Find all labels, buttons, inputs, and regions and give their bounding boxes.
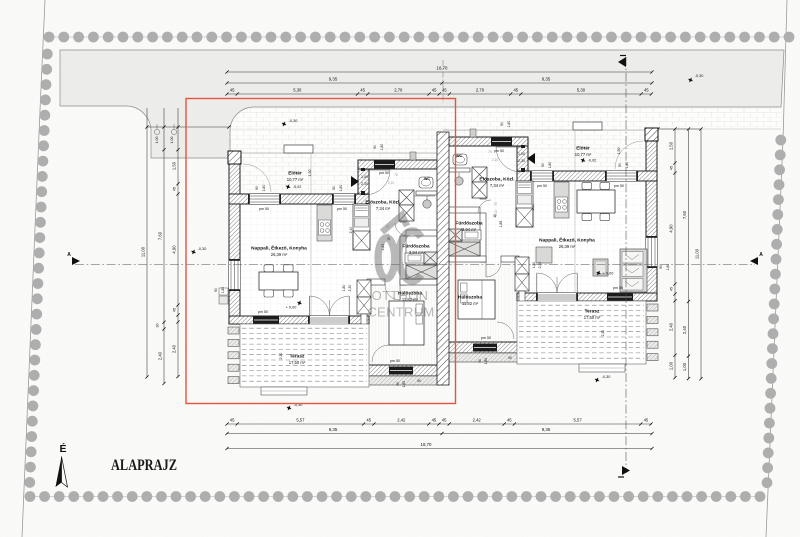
svg-text:90: 90 [396,382,400,386]
svg-text:1,50: 1,50 [617,148,621,155]
svg-text:10: 10 [493,214,497,218]
svg-text:45: 45 [230,88,235,93]
entry step right unit [573,122,602,130]
svg-text:pm 50: pm 50 [390,359,400,363]
svg-text:1,00: 1,00 [361,175,368,179]
bottom wall bedroom right unit [437,342,519,353]
right chains top connector [658,128,701,130]
svg-text:45: 45 [670,166,674,170]
svg-text:pm 50: pm 50 [494,149,504,153]
plot boundary line right [766,0,787,537]
svg-text:Előszoba, Közl.: Előszoba, Közl. [479,177,514,183]
svg-text:1,80: 1,80 [532,262,536,269]
svg-text:2,70: 2,70 [394,88,403,93]
svg-text:7,60: 7,60 [158,231,163,240]
bottom wall bedroom left unit [367,365,449,376]
washbasin right unit [455,177,463,185]
porch edge line left [310,153,312,316]
svg-text:18,70: 18,70 [421,442,433,447]
svg-text:4,90: 4,90 [669,224,674,233]
right dimension chain 1,50 45 4,90 45 30 2,40 1,00 [674,129,676,378]
bedroom terrace-side door left unit [372,345,389,362]
svg-text:9,35: 9,35 [329,427,338,432]
svg-text:1,00: 1,00 [155,137,159,144]
wc bowl left unit [419,177,433,188]
porch roof line left unit [229,152,443,154]
svg-text:90: 90 [255,186,259,190]
svg-text:2,42: 2,42 [473,418,482,423]
svg-text:WC: WC [456,154,462,158]
sofa right unit [620,249,647,292]
planter edge left unit [367,376,440,385]
washbasin left unit [423,200,431,208]
svg-text:-0,30: -0,30 [695,74,704,78]
porch door swing left unit [243,164,271,192]
porch edge line right [574,130,576,293]
svg-text:Előtér: Előtér [288,171,302,177]
svg-text:2,10: 2,10 [531,204,535,211]
svg-text:50: 50 [417,379,421,383]
front wall living left unit with windows [229,194,369,204]
outer wall left (west) with window [229,152,240,324]
entry arrow right unit [527,153,535,164]
driveway tree symbols [154,129,159,134]
porch door swing right unit [615,141,643,169]
svg-text:Előszoba, Közl.: Előszoba, Közl. [365,200,400,206]
svg-text:75: 75 [488,150,492,154]
svg-text:Fürdőszoba: Fürdőszoba [455,221,483,227]
entry door left unit [361,168,365,171]
svg-text:1,80: 1,80 [625,162,629,169]
terrace edge marks right [647,304,658,311]
svg-text:7,34 m²: 7,34 m² [376,206,391,211]
left dimension chain 11,00 [146,108,148,377]
svg-text:10,77 m²: 10,77 m² [575,152,592,157]
planter edge right unit [446,353,519,362]
svg-text:45: 45 [644,418,649,423]
bottom wall living right unit with terrace door [517,293,657,301]
svg-text:2,10: 2,10 [349,227,353,234]
porch roof line right unit [443,129,658,131]
bottom wall living left unit with terrace door [229,316,369,324]
front wall hall right unit [449,137,528,146]
svg-text:11,82 m²: 11,82 m² [462,301,479,306]
party wall between units [437,132,449,385]
svg-text:pm 50: pm 50 [379,171,389,175]
svg-text:2,30: 2,30 [348,285,352,292]
svg-text:WC: WC [424,177,430,181]
svg-text:2,40: 2,40 [172,344,177,353]
wc partition left unit [416,191,437,195]
entry door right unit [521,145,525,148]
svg-text:5,57: 5,57 [296,418,305,423]
svg-text:-0,02: -0,02 [293,185,302,189]
coffee table right unit [536,247,552,263]
svg-text:2,40: 2,40 [158,351,163,360]
svg-text:2,40: 2,40 [682,325,687,334]
svg-text:A: A [759,252,763,258]
bottom dimension line 9,35 + 9,35 [227,433,652,435]
section line vertical [625,57,627,473]
floor living-dining right unit [449,181,646,293]
svg-text:7,60: 7,60 [682,210,687,219]
north arrow [56,457,62,488]
svg-text:90: 90 [618,163,622,167]
svg-text:45: 45 [513,88,518,93]
top dimension line segments 45 5,30 45 2,70 45 45 2,70 45 5,30 45 [227,93,652,95]
svg-text:9,35: 9,35 [542,77,551,82]
svg-text:1,80: 1,80 [342,285,346,292]
corner column right unit [645,128,658,141]
left chains top connector + 1,00 labels [147,126,229,128]
section flag bottom [622,466,630,475]
svg-text:75: 75 [494,202,498,206]
svg-text:90: 90 [214,288,218,292]
svg-text:2,10: 2,10 [492,158,499,162]
svg-text:1,80: 1,80 [507,121,511,128]
shaft with cross right unit [515,257,529,274]
section flag top [618,57,626,67]
washing machine right unit [462,230,481,240]
bath cabinet cross right unit [449,229,462,241]
terrace deck right unit [517,301,646,364]
svg-text:90: 90 [478,359,482,363]
svg-text:45: 45 [670,287,674,291]
svg-text:1,85: 1,85 [499,221,503,228]
bedroom door left unit [385,285,400,300]
svg-text:1,50: 1,50 [308,170,312,177]
svg-text:9,35: 9,35 [542,427,551,432]
boundary dots top row [45,36,790,38]
svg-text:2,40: 2,40 [669,322,674,331]
svg-text:90: 90 [659,265,663,269]
svg-text:17,50 m²: 17,50 m² [584,315,601,320]
svg-text:-0,30: -0,30 [602,375,611,379]
svg-text:+ 0,00: + 0,00 [603,272,614,276]
watermark OC logo [367,215,434,320]
svg-text:75: 75 [394,173,398,177]
corner column left unit [228,151,241,164]
svg-text:45: 45 [432,418,437,423]
svg-text:2,30: 2,30 [601,330,605,337]
svg-text:1,00: 1,00 [518,152,525,156]
svg-text:1,80: 1,80 [548,162,552,169]
svg-text:90: 90 [332,186,336,190]
section marker A right [750,257,758,265]
plot boundary line left [22,0,45,537]
svg-text:45: 45 [173,187,177,191]
section marker A left [72,257,80,265]
svg-text:45: 45 [644,88,649,93]
svg-text:1,80: 1,80 [262,185,266,192]
interior wall hall-bath left unit [400,216,406,222]
utility meter box at left wall [219,296,228,304]
bed right unit [458,280,495,319]
svg-text:2,30: 2,30 [518,159,525,163]
wc bowl shelf left unit [414,195,435,197]
svg-text:+ 0,00: + 0,00 [286,306,297,310]
interior wall bedroom-living left unit [361,314,367,365]
bed left unit [389,301,424,345]
svg-text:1,00: 1,00 [170,137,174,144]
svg-text:17,50 m²: 17,50 m² [289,360,306,365]
svg-text:90: 90 [500,122,504,126]
boundary dots right column [775,135,786,146]
road and driveway area [60,50,784,158]
armchair right unit [593,259,608,276]
front wall living right unit with windows [517,171,657,181]
right dimension chain 11,00 [700,129,702,379]
outer wall right (east) with window [646,129,657,301]
svg-text:1,80: 1,80 [402,381,406,387]
svg-text:90: 90 [541,163,545,167]
svg-text:1,80: 1,80 [221,287,225,294]
svg-text:2,42: 2,42 [397,418,406,423]
svg-text:30: 30 [156,324,160,328]
porch paving right unit [528,129,646,172]
kitchen tall cabinets left unit [353,204,370,250]
french doors to terrace right unit [536,273,538,293]
svg-text:5,57: 5,57 [574,418,583,423]
svg-text:2,10: 2,10 [388,181,395,185]
svg-text:2,30: 2,30 [361,182,368,186]
bathtub left unit [406,265,437,279]
top dimension line 9,35 + 9,35 [227,82,652,84]
wardrobe right unit [472,167,487,182]
svg-text:pm 50: pm 50 [259,207,269,211]
svg-text:26,39 m²: 26,39 m² [271,252,288,257]
left dimension chain 1,00 7,60 30 2,40 [163,108,165,384]
svg-text:pm 50: pm 50 [481,336,491,340]
svg-text:2,30: 2,30 [538,262,542,269]
axis line between units [442,60,444,103]
french doors to terrace left unit [309,296,311,316]
svg-text:A: A [67,252,71,258]
svg-text:Terasz: Terasz [290,354,305,360]
svg-text:pm 50: pm 50 [614,184,624,188]
svg-text:pm 50: pm 50 [613,286,623,290]
bath door right unit [478,200,491,213]
terrace steps right unit [579,364,625,372]
dining table left unit [259,272,298,290]
floor living-dining left unit [240,204,437,316]
svg-text:-0,30: -0,30 [198,247,207,251]
dining table right unit [577,190,615,213]
svg-text:90: 90 [373,145,377,149]
svg-text:pm 50: pm 50 [337,207,347,211]
section line A-A horizontal [75,264,755,266]
interior wall bedroom-living right unit [519,291,525,342]
svg-text:É: É [59,442,66,455]
wc partition right unit [449,168,470,172]
wc bowl right unit [453,154,467,165]
svg-text:Fürdőszoba: Fürdőszoba [402,244,430,250]
floor bedroom right unit [449,262,519,342]
kitchen island right unit [554,182,569,218]
svg-text:ALAPRAJZ: ALAPRAJZ [111,457,177,474]
interior wall bath-bedroom right unit [501,256,519,262]
boundary dots left column [42,49,53,60]
left dimension chain 1,00 1,50 45 4,90 45 2,40 [177,108,179,377]
svg-text:Előtér: Előtér [576,146,590,152]
shaft with cross left unit [357,280,371,297]
svg-text:2,70: 2,70 [476,88,485,93]
svg-text:-0,02: -0,02 [588,159,597,163]
svg-text:4,90: 4,90 [172,245,177,254]
floor bedroom left unit [367,285,437,365]
svg-text:pm 50: pm 50 [537,184,547,188]
boundary dots bottom row [28,496,763,498]
svg-text:-0,30: -0,30 [289,119,298,123]
porch pillar wall right unit [517,138,528,171]
svg-text:2,30: 2,30 [279,353,283,360]
terrace deck left unit [240,324,369,387]
kitchen island left unit [317,205,332,241]
svg-text:45: 45 [360,88,365,93]
svg-text:5,30: 5,30 [293,88,302,93]
svg-text:1,50: 1,50 [669,141,674,150]
svg-text:OTTHON: OTTHON [372,288,429,303]
svg-text:45: 45 [366,418,371,423]
bath cabinet cross left unit [424,252,437,264]
terrace steps left unit [261,387,307,395]
porch paving left unit [241,152,358,195]
svg-text:11,00: 11,00 [141,246,146,257]
svg-text:26,39 m²: 26,39 m² [559,244,576,249]
svg-text:1,00: 1,00 [669,361,674,370]
svg-text:45: 45 [442,418,447,423]
brick paved walkway [230,107,781,129]
svg-text:1,80: 1,80 [380,144,384,151]
svg-text:1,80: 1,80 [339,185,343,192]
front wall hall left unit [358,160,437,169]
bath door left unit [395,223,408,236]
kitchen tall cabinets right unit [516,181,533,227]
svg-text:50: 50 [508,356,512,360]
bottom dimension line 18,70 [227,448,652,450]
svg-text:10,77 m²: 10,77 m² [287,177,304,182]
svg-text:11,00: 11,00 [695,248,700,259]
red highlight box left unit [186,99,456,404]
svg-text:Terasz: Terasz [585,309,600,315]
bedroom terrace-side door right unit [497,322,514,339]
svg-text:45: 45 [507,418,512,423]
svg-text:Hálószoba: Hálószoba [458,295,482,301]
svg-text:1,00: 1,00 [682,362,687,371]
svg-text:18,70: 18,70 [437,66,449,71]
svg-text:1,50: 1,50 [172,161,177,170]
porch pillar wall left unit [358,161,369,194]
svg-text:45: 45 [173,308,177,312]
floor hall left unit [369,169,437,204]
interior wall hall-bath right unit [480,193,486,199]
svg-text:5,30: 5,30 [577,88,586,93]
svg-text:pm 50: pm 50 [258,310,268,314]
bedroom door right unit [486,262,501,277]
right dimension chain 7,60 2,40 1,00 [688,129,690,379]
washing machine left unit [405,253,424,263]
entry step left unit [284,145,313,153]
bathtub right unit [449,242,480,256]
svg-text:7,34 m²: 7,34 m² [490,183,505,188]
interior wall bath-bedroom left unit [367,279,385,285]
svg-text:45: 45 [230,418,235,423]
svg-text:9,35: 9,35 [329,77,338,82]
entry arrow left unit [351,176,359,187]
svg-text:1,80: 1,80 [484,358,488,364]
svg-text:3,94 m²: 3,94 m² [409,250,424,255]
top dimension line 18,70 [227,71,652,73]
svg-text:3,94 m²: 3,94 m² [462,227,477,232]
wardrobe left unit [399,190,414,205]
bottom dimension line segments 45 5,57 45 2,42 45 45 2,42 45 5,57 45 [227,423,652,425]
svg-text:CENTRUM: CENTRUM [367,305,434,320]
svg-text:45: 45 [432,88,437,93]
terrace edge marks left [228,327,239,334]
floor hall right unit [449,146,517,181]
